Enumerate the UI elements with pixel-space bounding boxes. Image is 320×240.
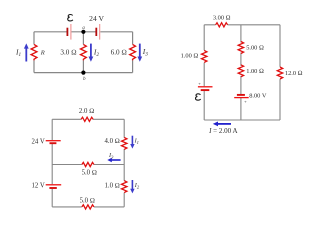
wire: circuit 3 left side lower: [51, 165, 53, 207]
svg-text:I1: I1: [134, 138, 139, 145]
resistor 1.0 ohm on right side lower: [122, 181, 127, 193]
svg-text:3.0 Ω: 3.0 Ω: [60, 49, 76, 57]
current arrow I3 (down): [137, 44, 142, 62]
svg-text:I = 2.00 A: I = 2.00 A: [208, 127, 237, 135]
battery EMF (script E) on top wire: short thick negative plate: [66, 28, 68, 36]
svg-text:5.00 Ω: 5.00 Ω: [246, 45, 264, 52]
wire: circuit 2 bottom side: [204, 119, 280, 121]
wire: circuit 1 top side with battery gaps: [34, 31, 133, 33]
resistor 1.00 ohm on middle branch: [238, 65, 243, 77]
current arrow I3 (left) above middle wire: [107, 158, 120, 162]
node a dot: [81, 30, 85, 34]
resistor 4.0 ohm on right side upper: [122, 137, 127, 149]
node b dot: [81, 71, 85, 75]
battery 12 V: long thin plate: [46, 184, 62, 186]
wire: circuit 2 top side: [204, 24, 280, 26]
svg-text:5.0 Ω: 5.0 Ω: [80, 198, 95, 205]
wire: circuit 3 top side: [52, 118, 124, 120]
svg-text:I3: I3: [108, 152, 114, 159]
battery script-E: short thick negative plate: [201, 89, 210, 91]
wire: circuit 1 bottom side: [34, 72, 133, 74]
wire: circuit 3 right side upper: [123, 119, 125, 164]
battery 8.00 V: short thick plate (top): [237, 94, 245, 96]
wire: circuit 2 left side: [203, 25, 205, 120]
svg-text:1.0 Ω: 1.0 Ω: [104, 183, 119, 190]
wire: circuit 3 middle wire: [52, 164, 124, 166]
current arrow I2 (down) circuit 3: [130, 180, 134, 193]
wire: circuit 3 left side upper: [51, 119, 53, 164]
resistor 1.00 ohm on left side: [202, 50, 207, 62]
svg-text:I1: I1: [15, 47, 21, 58]
svg-text:R: R: [40, 49, 45, 56]
current arrow I1 (down) circuit 3: [130, 136, 134, 149]
svg-text:24 V: 24 V: [32, 138, 45, 145]
battery 12 V: short thick plate: [49, 187, 56, 189]
wire: circuit 2 right side: [279, 25, 281, 120]
battery 24 V: long thin plate: [46, 140, 61, 142]
battery EMF long thin positive plate: [70, 24, 72, 40]
svg-text:I3: I3: [142, 47, 148, 58]
battery 8.00 V: long thin plate (bottom): [234, 97, 249, 99]
svg-text:+: +: [198, 81, 201, 86]
wire: circuit 1 left side: [33, 32, 35, 73]
svg-text:5.0 Ω: 5.0 Ω: [82, 169, 97, 176]
label script-E EMF circuit 2: [196, 94, 201, 100]
wire: circuit 3 right side lower: [123, 165, 125, 207]
current arrow I2 (down): [89, 44, 94, 62]
svg-text:12.0 Ω: 12.0 Ω: [285, 70, 303, 77]
svg-text:I2: I2: [93, 47, 99, 58]
resistor 2.0 ohm on top wire: [81, 117, 93, 121]
svg-text:4.0 Ω: 4.0 Ω: [104, 138, 119, 145]
battery 24V: short thick plate: [95, 28, 97, 36]
svg-text:+: +: [244, 99, 247, 104]
resistor 3.0 ohm on middle branch: [81, 44, 87, 60]
resistor 3.00 ohm on top wire: [216, 23, 228, 27]
svg-text:a: a: [82, 26, 85, 31]
current arrow I (left) on bottom: [213, 122, 231, 127]
resistor 12.0 ohm on right side: [277, 67, 282, 79]
resistor 6.0 ohm on right side: [130, 44, 136, 60]
svg-text:24 V: 24 V: [89, 14, 104, 23]
svg-text:3.00 Ω: 3.00 Ω: [213, 15, 231, 22]
svg-text:6.0 Ω: 6.0 Ω: [111, 49, 127, 57]
svg-text:1.00 Ω: 1.00 Ω: [246, 68, 264, 75]
battery script-E: long positive plate: [198, 86, 213, 88]
svg-text:I2: I2: [134, 182, 140, 189]
wire: circuit 3 bottom side: [52, 206, 124, 208]
battery 24 V: short thick plate: [50, 142, 57, 144]
wire: circuit 1 middle branch: [82, 32, 84, 73]
svg-text:2.0 Ω: 2.0 Ω: [79, 108, 94, 115]
resistor 5.00 ohm on middle branch: [238, 42, 243, 54]
resistor R on left side: [31, 44, 37, 60]
svg-text:12 V: 12 V: [32, 182, 45, 189]
svg-text:b: b: [83, 77, 86, 82]
svg-text:8.00 V: 8.00 V: [249, 92, 267, 99]
svg-text:1.00 Ω: 1.00 Ω: [181, 53, 199, 60]
resistor 5.0 ohm on middle wire: [82, 162, 94, 166]
wire: circuit 2 middle branch: [240, 25, 242, 120]
battery 24V long thin plate: [99, 24, 101, 40]
resistor 5.0 ohm on bottom wire: [82, 205, 94, 209]
current arrow I1 (up): [24, 43, 29, 61]
label script-E EMF: [68, 15, 73, 21]
wire: circuit 1 right side: [132, 32, 134, 73]
